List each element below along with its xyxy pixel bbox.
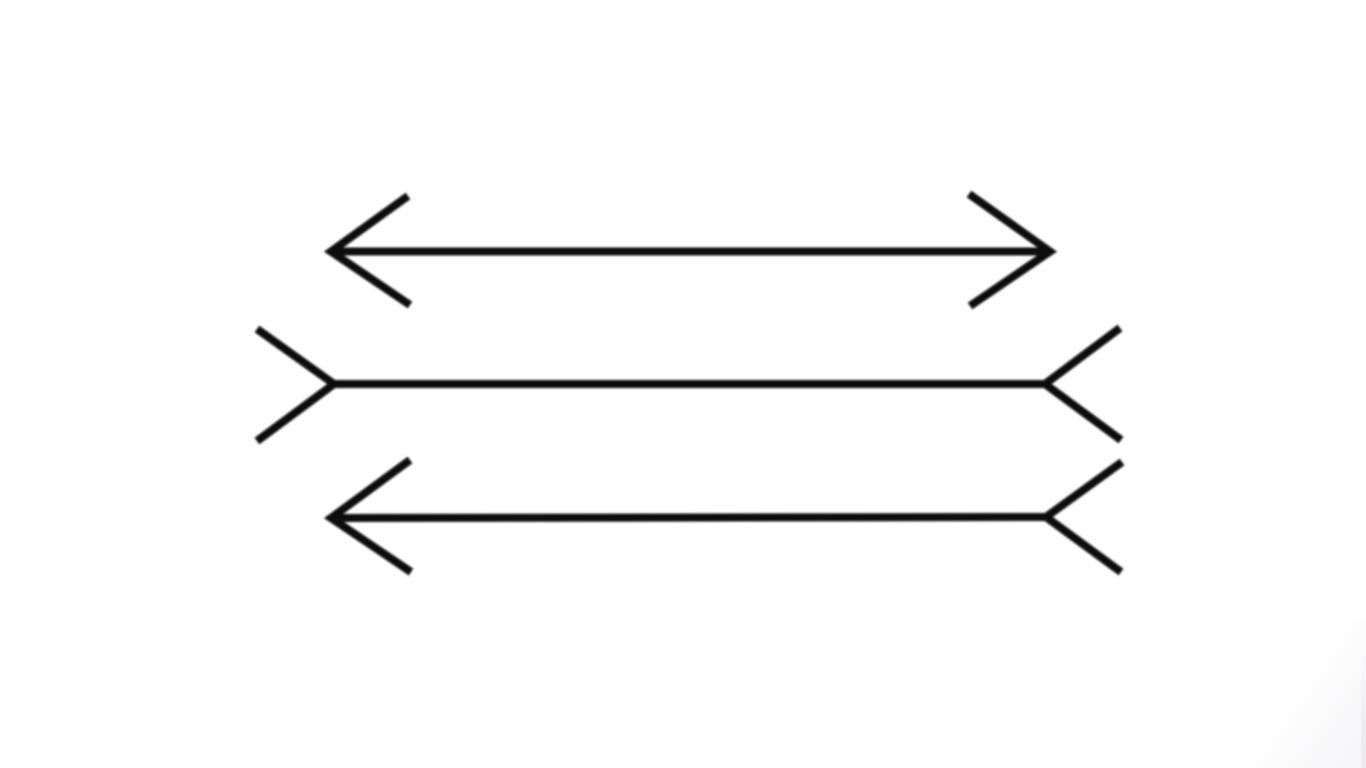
bottom arrow left arrowhead (fins-in): [331, 460, 411, 572]
middle arrow shaft: [334, 380, 1045, 388]
middle arrow right tail (fins-out): [1045, 328, 1121, 440]
top arrow shaft: [331, 248, 1050, 256]
middle arrow left tail (fins-out): [257, 329, 334, 441]
top arrow left arrowhead (fins-in): [331, 196, 410, 305]
bottom arrow right tail (fins-out): [1046, 462, 1122, 572]
top arrow right arrowhead (fins-in): [969, 194, 1050, 306]
bottom arrow shaft: [331, 517, 1046, 518]
right edge strip: [1361, 648, 1366, 768]
corner haze (bottom-right faint shading): [1166, 618, 1366, 768]
